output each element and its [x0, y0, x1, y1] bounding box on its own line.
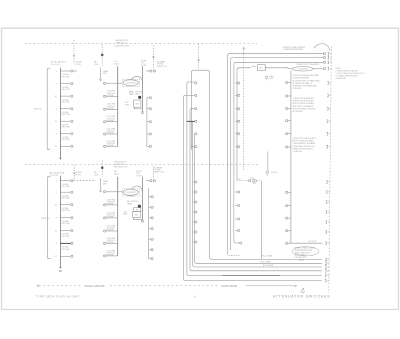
bus B2 row 5 terminal circle (section 2) [104, 242, 106, 244]
cable 1 terminal circle row 1 (lower) [195, 181, 197, 183]
cable 1 terminal circle row 7 (lower) [195, 241, 197, 243]
terminal row 3 wire (section 2) [60, 204, 70, 206]
svg-text:J8: J8 [327, 259, 329, 261]
svg-text:GND: GND [269, 78, 274, 80]
cable 2 terminal stub row 1 (upper) [235, 82, 237, 84]
svg-text:AT-1-2 GAIN: AT-1-2 GAIN [262, 255, 273, 258]
bus B4 row 5 stub wire (section 1) [147, 145, 149, 147]
terminal row 2 wire (section 2) [60, 191, 70, 193]
note list top right [336, 68, 365, 80]
svg-text:FLMPRF: FLMPRF [107, 120, 115, 122]
cable 1 terminal stub row 4 (lower) [193, 211, 195, 213]
svg-text:J8: J8 [329, 95, 331, 97]
svg-text:4. SEE NOTE: 4. SEE NOTE [336, 78, 347, 80]
svg-text:C-1 (C-4): C-1 (C-4) [50, 175, 59, 177]
bus B3 end terminal circle (section 2) [141, 220, 143, 222]
bulkhead connector tick 8 [327, 120, 328, 123]
svg-text:GROUND LUG: GROUND LUG [114, 46, 128, 48]
wire value label row 3 (section 1) [62, 98, 70, 103]
svg-text:J8: J8 [327, 263, 329, 265]
svg-text:J8: J8 [330, 68, 332, 70]
svg-text:ATTEN SW PANEL, GROUND: ATTEN SW PANEL, GROUND [293, 107, 317, 110]
svg-text:TYPE 5B7A PLUG-IN UNIT: TYPE 5B7A PLUG-IN UNIT [36, 295, 80, 299]
terminal header text B-1 B-4 [115, 61, 120, 66]
trunk terminal circle row 3 [286, 107, 288, 109]
bus B1 bottom arrowhead [59, 158, 61, 160]
shield ground pigtail (section 2) [266, 171, 269, 176]
cable 1 terminal stub row 2 (lower) [193, 191, 195, 193]
terminal header text TO REAR of panel (section 2) [154, 166, 164, 173]
bulkhead connector tick 10 [326, 145, 327, 148]
bus B2 row 6 terminal circle (section 1) [104, 145, 106, 147]
svg-text:J8: J8 [328, 212, 330, 214]
svg-text:3: 3 [56, 218, 58, 220]
cable 2 terminal stub row 1 (lower) [235, 191, 237, 193]
svg-text:REL: REL [135, 214, 139, 216]
bus B4 row 1 stub wire (section 2) [149, 196, 151, 198]
top chassis boundary dashed line [25, 42, 257, 44]
bus B2 row 4 terminal circle (section 2) [104, 230, 106, 232]
cable 1 conductor 6 top corner and stub [184, 95, 195, 97]
svg-text:CONT: CONT [136, 175, 142, 177]
svg-text:4: 4 [56, 134, 58, 136]
bus B1 bottom terminal circle (section 2) [60, 270, 62, 272]
svg-text:EACH CONNECT AT REAR: EACH CONNECT AT REAR [293, 140, 315, 143]
trunk conductor vertical [290, 71, 292, 244]
bulkhead boundary dashed vertical [329, 46, 332, 293]
svg-text:GND: GND [103, 73, 108, 75]
microphone jack box J1 [258, 65, 266, 71]
dashed shield wire TB (section 2) [101, 161, 103, 177]
cable 1 conductor 6 bottom sweep to attenuator bus [184, 279, 322, 281]
bulkhead connector tick 1 [328, 52, 329, 55]
bus B3 vertical (section 1) [141, 66, 143, 111]
svg-text:47K 1/2W: 47K 1/2W [62, 89, 70, 91]
bus B4 row 6 stub wire (section 2) [149, 249, 151, 251]
bus B2 row 2 resistor label (section 2) [107, 199, 116, 205]
bus B2 row 4 wire (section 2) [106, 230, 118, 232]
bus B2 row 1 wire (section 2) [106, 191, 118, 193]
wire continuation of row 1 (section 1) [73, 70, 77, 72]
bus B2 row 6 wire (section 2) [106, 255, 118, 257]
bus B2 row 2 wire (section 2) [106, 204, 118, 206]
svg-text:TERM 1 AND GROUND LUG: TERM 1 AND GROUND LUG [293, 145, 316, 148]
wire from bus B2 to transformer T2 [118, 191, 123, 193]
svg-text:3: 3 [56, 109, 58, 111]
cable 1 conductor 4 vertical [189, 110, 191, 268]
svg-text:J8: J8 [327, 275, 329, 277]
terminal row 1 wire (section 1) [60, 70, 70, 72]
trunk terminal circle row 6 [286, 146, 288, 148]
svg-text:TERM: TERM [127, 203, 133, 205]
cable 2 terminal stub row 4 (lower) [235, 230, 237, 232]
bulkhead connector tick 9 [327, 132, 328, 135]
svg-text:TERM 1,2,3: TERM 1,2,3 [157, 66, 167, 68]
cable 1 right conductor sweeping to attenuator bus row 1 [210, 73, 322, 259]
svg-text:FLMPRF: FLMPRF [107, 108, 115, 110]
svg-text:47K 1/2W: 47K 1/2W [62, 186, 70, 188]
dashed wire from phone jack to drop conductor [256, 180, 261, 182]
svg-text:LOUDSPKR: LOUDSPKR [126, 192, 137, 194]
trunk terminal stub row 5 [288, 133, 291, 135]
drop conductor to attenuator bus row 1 [260, 181, 262, 260]
terminal row 6 wire (section 2) [60, 242, 70, 244]
wire from K1 to bus B3 (section 1) [134, 107, 142, 109]
svg-text:J8: J8 [329, 146, 331, 148]
station 2 bracket [48, 177, 51, 258]
svg-text:2: 2 [56, 192, 58, 194]
junction box MP (section 2) [134, 208, 141, 212]
cable 2 terminal circle row 2 (upper) [238, 94, 240, 96]
cable 1 terminal stub row 1 (lower) [193, 181, 195, 183]
cable 1 terminal circle row 3 (lower) [195, 201, 197, 203]
bulkhead connector tick 11 [326, 181, 327, 184]
trunk terminal stub row 2 [288, 95, 291, 97]
bulkhead connector tick 18 [325, 258, 326, 261]
phone jack concentric symbol [252, 179, 256, 183]
cable 2 terminal stub row 4 (upper) [235, 120, 237, 122]
mid chassis boundary dashed line [25, 164, 258, 166]
ground lead with arrow (section 1) [100, 68, 102, 80]
component box K1 (section 1) [134, 100, 141, 107]
cable 2 conductor 4 vertical [236, 70, 238, 181]
bus B4 row 1 stub wire (section 1) [147, 97, 149, 99]
bus B4 vertical (section 1) [146, 98, 148, 147]
trunk bottom wire to bulkhead [288, 242, 323, 244]
junction dot on shield wire (section 2) [101, 166, 104, 169]
cable 1 conductor 4 top corner and stub [190, 109, 195, 111]
trunk terminal stub row 4 [288, 120, 291, 122]
bus B2 row 2 resistor label (section 1) [107, 91, 116, 97]
bus B2 row 5 resistor label (section 1) [107, 128, 116, 134]
bus B4 row 4 stub wire (section 2) [149, 228, 151, 230]
svg-text:AT ONE END: AT ONE END [293, 110, 304, 113]
bulkhead connector tick 19 [325, 262, 326, 265]
svg-text:JACK: JACK [135, 93, 140, 96]
bus B3 vertical (section 2) [141, 177, 143, 220]
trunk bottom terminal circle [286, 242, 288, 244]
shield ground pigtail (section 1) [265, 76, 268, 81]
cable 1 terminal stub row 6 (lower) [193, 231, 195, 233]
bus B2 row 2 wire (section 1) [106, 95, 118, 97]
svg-text:12: 12 [55, 146, 58, 148]
dashed wire to alarm (section 1) [73, 40, 75, 64]
bulkhead connector tick 23 [325, 279, 326, 282]
svg-text:SIGNAL GROUND: SIGNAL GROUND [85, 285, 105, 288]
terminal row 3 terminal circle (section 2) [71, 204, 73, 206]
cable 2 terminal circle row 1 (upper) [238, 82, 240, 84]
svg-text:J8: J8 [328, 182, 330, 184]
terminal header text FR SPKR [141, 60, 147, 66]
svg-text:+ SEE NOTE 5 (T-20-A-GRN) +: + SEE NOTE 5 (T-20-A-GRN) + [296, 63, 320, 66]
cable 2 terminal circle row 1 (lower) [238, 191, 240, 193]
wire value label row 5 (section 1) [62, 123, 70, 128]
wire value label row 3 (section 2) [62, 207, 70, 212]
cable 1 terminal circle row 6 (lower) [195, 231, 197, 233]
bulkhead connector tick 6 [327, 94, 328, 97]
cable 2 terminal stub row 6 (upper) [235, 146, 237, 148]
bus B2 row 4 resistor label (section 2) [107, 225, 116, 231]
bulkhead connector tick 4 [327, 67, 328, 70]
svg-text:J8 PIN: J8 PIN [299, 260, 305, 262]
bus B2 row 1 wire (section 1) [106, 82, 118, 84]
svg-text:10: 10 [55, 204, 58, 206]
bus B4 vertical (section 2) [148, 188, 150, 259]
cable 1 conductor 2 bottom sweep to attenuator bus [195, 261, 322, 263]
bus B4 row 3 terminal circle (section 2) [151, 217, 153, 219]
bus B4 row 1 terminal circle (section 1) [149, 97, 151, 99]
bus B4 row 5 terminal circle (section 2) [151, 238, 153, 240]
bus B2 row 3 resistor label (section 1) [107, 104, 116, 110]
component box K2 (section 2) [133, 211, 141, 217]
bus B4 row 3 stub wire (section 1) [147, 121, 149, 123]
bus B2 row 6 wire (section 1) [106, 145, 118, 147]
trunk terminal circle row 7 [286, 191, 288, 193]
terminal header text AT-5 OR AT-6 [51, 60, 66, 66]
svg-text:10: 10 [55, 96, 58, 98]
bulkhead connector tick 2 [328, 56, 329, 59]
dashed wire to alarm (section 2) [73, 165, 75, 179]
svg-text:J8: J8 [327, 271, 329, 273]
loudspeaker transformer T1 (section 1) [122, 79, 139, 86]
terminal row 2 terminal circle (section 2) [71, 191, 73, 193]
svg-text:(T201-A): (T201-A) [127, 195, 134, 198]
cable 1 terminal stub row 3 (lower) [193, 201, 195, 203]
bus B2 row 3 terminal circle (section 2) [104, 217, 106, 219]
svg-text:J8: J8 [328, 222, 330, 224]
terminal row 2 terminal circle (section 1) [71, 83, 73, 85]
bus B4 row 4 terminal circle (section 2) [151, 228, 153, 230]
cable 2 conductor 4 top corner [237, 68, 251, 70]
bus B2 row 2 terminal circle (section 1) [104, 95, 106, 97]
bulkhead connector tick 15 [326, 221, 327, 224]
arc wire from T2 to bus B3 (section 2) [132, 186, 143, 192]
ground lead label [103, 70, 109, 75]
svg-text:47K 1/2W: 47K 1/2W [62, 249, 70, 251]
svg-text:J8: J8 [327, 280, 329, 282]
cable 2 terminal stub row 5 (upper) [235, 133, 237, 135]
capacitor C1 label [135, 91, 144, 95]
svg-text:1: 1 [56, 181, 58, 183]
wire from transfer oval to bulkhead [313, 68, 323, 70]
note paragraph 3 [293, 137, 317, 153]
cable 2 terminal circle row 5 (upper) [238, 133, 240, 135]
cable 2 terminal circle row 4 (lower) [238, 229, 240, 231]
cable 2 conductor 3 bottom corner stub [234, 241, 240, 243]
bus B4 row 5 terminal circle (section 1) [149, 145, 151, 147]
cable 1 conductor 5 bottom sweep to attenuator bus [187, 274, 322, 276]
radio room boundary solid segment [246, 285, 295, 287]
trunk terminal stub row 6 [288, 146, 291, 148]
svg-text:J8: J8 [329, 83, 331, 85]
terminal row 1 terminal circle (section 2) [71, 180, 73, 182]
svg-text:(T20): (T20) [250, 178, 254, 180]
svg-text:AT TERM 3 ON REAR OF: AT TERM 3 ON REAR OF [293, 82, 313, 85]
bus B1 vertical (section 1) [59, 68, 61, 159]
phone jack terminal circle [249, 180, 251, 182]
bus B2 vertical (section 2) [117, 177, 119, 256]
svg-text:47K 1/2W: 47K 1/2W [62, 102, 70, 104]
svg-text:J8: J8 [328, 202, 330, 204]
svg-text:STA 1 (2): STA 1 (2) [34, 107, 43, 110]
dashed drop wire to terminal pair (section 1) [153, 46, 155, 70]
svg-text:47K 1/2W: 47K 1/2W [62, 236, 70, 238]
bulkhead connector tick 14 [326, 211, 327, 214]
terminal row 4 wire (section 1) [60, 108, 70, 110]
svg-text:AND TERM 2 ON REAR OF: AND TERM 2 ON REAR OF [293, 105, 314, 108]
terminal row 3 wire (section 1) [60, 95, 70, 97]
svg-text:J8: J8 [330, 53, 332, 55]
svg-text:ATTENUATOR SWITCHES: ATTENUATOR SWITCHES [273, 295, 330, 299]
note text above top boundary [115, 40, 128, 45]
svg-text:2: 2 [56, 83, 58, 85]
cable 2 conductor 1 dashed foot [228, 254, 241, 256]
cable 1 conductor 2 vertical [194, 135, 196, 261]
wire value label row 4 (section 1) [62, 111, 70, 116]
svg-text:TERM 1,2,3: TERM 1,2,3 [154, 172, 164, 174]
svg-text:+ STATIONS: + STATIONS [293, 150, 304, 153]
cable 1 conductor 6 vertical [183, 97, 185, 279]
terminal row 6 wire (section 1) [60, 133, 70, 135]
cable 1 conductor 5 top corner and stub [187, 82, 195, 84]
bus B2 row 5 wire (section 1) [106, 133, 118, 135]
terminal row 5 terminal circle (section 2) [71, 229, 73, 231]
bus B4 row 1 terminal circle (section 2) [151, 196, 153, 198]
capacitor symbol C1 (section 1) [129, 91, 133, 94]
note cloud (section 2) [292, 247, 319, 256]
terminal header text AT collector (section 2) [50, 171, 65, 177]
cable 1 terminal circle row 2 (upper) [195, 94, 197, 96]
svg-text:J8: J8 [300, 292, 302, 294]
cable 1 terminal circle row 5 (lower) [195, 221, 197, 223]
svg-text:AT-3-4 GAIN: AT-3-4 GAIN [263, 264, 274, 267]
svg-text:(T20): (T20) [94, 174, 99, 176]
svg-text:(TOP): (TOP) [76, 64, 82, 66]
bulkhead connector tick 20 [325, 266, 326, 269]
terminal row 2 wire (section 1) [60, 83, 70, 85]
terminal header text R-BUS [76, 61, 83, 66]
phone jack dashed row (section 2) [237, 180, 248, 182]
terminal header text B-1 B-4 (section 2) [114, 171, 119, 176]
wire from bus B2 to transformer T1 [118, 82, 123, 84]
svg-text:STA 2 (2): STA 2 (2) [41, 217, 50, 220]
svg-text:1: 1 [56, 71, 58, 73]
cable 2 terminal circle row 3 (upper) [238, 108, 240, 110]
svg-text:CONDUCTOR C AND SHIELD: CONDUCTOR C AND SHIELD [293, 137, 317, 140]
shield ground pigtail label (section 1) [269, 76, 274, 80]
terminal header text TB [94, 61, 99, 66]
svg-text:47K 1/2W: 47K 1/2W [62, 127, 70, 129]
svg-text:OF ATTENUATOR SW PANEL: OF ATTENUATOR SW PANEL [293, 142, 316, 145]
cable 1 sheath rounded top [191, 70, 209, 150]
svg-text:OF THIS DWG: OF THIS DWG [295, 257, 307, 259]
dash-dot shield boundary above group 2 [243, 47, 245, 171]
cable 1 terminal circle row 6 (upper) [195, 146, 197, 148]
terminal row 6 terminal circle (section 2) [71, 242, 73, 244]
cable 2 terminal circle row 4 (upper) [238, 120, 240, 122]
set screw label (section 2) [127, 201, 138, 205]
terminal row 4 terminal circle (section 1) [71, 108, 73, 110]
trunk terminal stub row 10 [288, 230, 291, 232]
svg-text:J8: J8 [329, 133, 331, 135]
radio room boundary arrow right [295, 285, 297, 287]
trunk terminal circle row 4 [286, 120, 288, 122]
cable 1 conductor 4 bottom sweep to attenuator bus [190, 269, 322, 271]
bus B4 row 3 terminal circle (section 1) [149, 121, 151, 123]
cable 2 conductor 2 vertical [229, 60, 231, 250]
terminal row 1 terminal circle (section 1) [71, 70, 73, 72]
bulkhead connector tick 5 [327, 82, 328, 85]
svg-text:FLMPRF: FLMPRF [107, 145, 115, 147]
svg-text:AT-1-2 GAIN: AT-1-2 GAIN [260, 260, 271, 263]
terminal row 7 wire (section 1) [60, 145, 70, 147]
svg-text:OHM: OHM [125, 104, 130, 106]
note paragraph 1 [293, 74, 321, 90]
note paragraph 2 [293, 98, 317, 113]
svg-text:FLMPRF: FLMPRF [107, 255, 115, 257]
cable transfer oval label [292, 67, 313, 71]
terminal row 7 terminal circle (section 1) [71, 145, 73, 147]
svg-text:ATTENUATOR SW PANEL AND: ATTENUATOR SW PANEL AND [293, 85, 318, 88]
cable 2 terminal stub row 2 (lower) [235, 205, 237, 207]
dashed cable wire above group 1 [198, 44, 200, 69]
svg-text:11: 11 [55, 230, 58, 232]
top row 4 bulkhead terminal circle [323, 68, 325, 70]
top row 1 bulkhead terminal circle [323, 53, 325, 55]
bus B4 row 4 stub wire (section 1) [147, 133, 149, 135]
bus B2 row 4 wire (section 1) [106, 121, 118, 123]
svg-text:SHIELD TO: SHIELD TO [115, 164, 126, 166]
cable 2 conductor 3 vertical [233, 65, 235, 242]
wire value label row 6 (section 2) [62, 246, 70, 251]
svg-text:FLMPRF: FLMPRF [107, 133, 115, 135]
svg-text:CONN BOX: CONN BOX [293, 88, 303, 90]
svg-text:47K 1/2W: 47K 1/2W [62, 76, 70, 78]
resistor bracket label 4.7K (section 1) [125, 102, 130, 106]
svg-text:REL: REL [135, 103, 139, 105]
trunk terminal stub row 7 [288, 191, 291, 193]
svg-text:A: A [194, 294, 196, 298]
junction dot (section 1) [138, 96, 141, 99]
svg-text:RESPECTIVELY AT BOTH: RESPECTIVELY AT BOTH [293, 147, 314, 150]
terminal row 7 wire (section 2) [60, 255, 70, 257]
bulkhead connector tick 7 [327, 107, 328, 110]
wire value label row 4 (section 2) [62, 220, 70, 225]
wire value label row 1 (section 1) [62, 73, 70, 78]
svg-text:(T20): (T20) [94, 64, 99, 66]
svg-text:A-103-XX: A-103-XX [309, 240, 318, 243]
bus B1 bottom arrowhead (section 2) [59, 267, 61, 269]
cable 1 conductor 2 top corner and stub [195, 134, 197, 136]
cable 1 terminal circle row 4 (lower) [195, 211, 197, 213]
terminal header text TB (section 2) [94, 172, 99, 177]
svg-text:47K 1/2W: 47K 1/2W [62, 223, 70, 225]
svg-text:(X): (X) [239, 178, 242, 180]
svg-text:J8: J8 [329, 121, 331, 123]
bus B4 row 2 terminal circle (section 1) [149, 108, 151, 110]
terminal header text R-BUS (section 2) [75, 172, 82, 177]
bus B4 row 7 terminal circle (section 2) [151, 258, 153, 260]
svg-text:J8: J8 [330, 62, 332, 64]
terminal pair circles on row 1 (section 2) [146, 180, 155, 182]
bulkhead connector tick 3 [327, 61, 328, 64]
cable 2 terminal stub row 3 (upper) [235, 108, 237, 110]
svg-text:CONDUCTOR A SHIELDED WIRE: CONDUCTOR A SHIELDED WIRE [293, 74, 320, 77]
svg-text:J8: J8 [328, 232, 330, 234]
svg-text:MP4: MP4 [252, 66, 256, 68]
dark wire segment on station 2 row 6 [60, 242, 70, 244]
bus B4 row 5 stub wire (section 2) [149, 238, 151, 240]
